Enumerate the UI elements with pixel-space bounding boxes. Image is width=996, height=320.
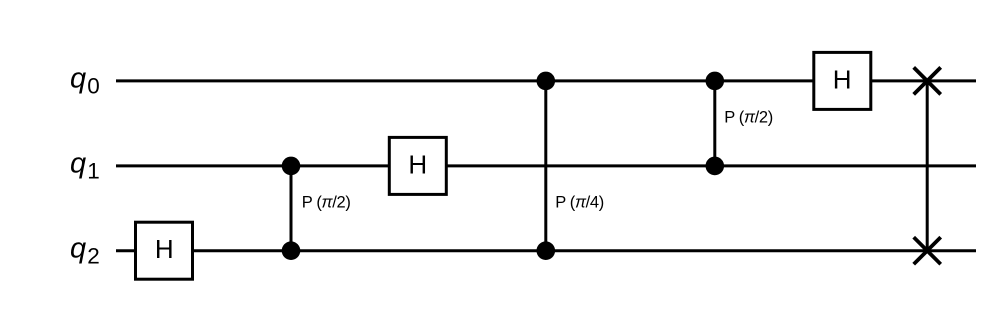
- svg-text:q: q: [70, 63, 86, 95]
- swap cross on q0: [914, 67, 941, 94]
- svg-text:0: 0: [87, 74, 100, 99]
- svg-text:H: H: [408, 149, 427, 179]
- svg-text:H: H: [155, 234, 174, 264]
- control dot CP1 on q2: [282, 241, 301, 260]
- wire q1: [116, 164, 976, 167]
- control dot CP2 on q0: [537, 72, 556, 91]
- svg-text:P (π/2): P (π/2): [302, 193, 351, 211]
- gate H on q1: [389, 137, 446, 194]
- control dot CP3 on q0: [706, 72, 725, 91]
- svg-text:q: q: [70, 148, 86, 180]
- svg-text:P (π/4): P (π/4): [555, 193, 604, 211]
- controlled-phase CP3 vertical wire (q0-q1): [713, 81, 716, 166]
- swap cross on q2: [914, 237, 941, 264]
- gate H on q0: [814, 52, 871, 109]
- wire q0: [116, 79, 976, 82]
- control dot CP2 on q2: [537, 241, 556, 260]
- control dot CP3 on q1: [706, 157, 725, 176]
- controlled-phase CP2 vertical wire (q0-q2): [544, 81, 547, 251]
- svg-text:H: H: [833, 64, 852, 94]
- qubit label q2: [70, 233, 100, 269]
- gate H on q2: [136, 222, 193, 279]
- svg-text:2: 2: [87, 244, 100, 269]
- qubit label q0: [70, 63, 100, 99]
- controlled-phase CP1 vertical wire (q1-q2): [290, 166, 293, 251]
- wire q2: [116, 249, 976, 252]
- svg-text:1: 1: [87, 159, 100, 184]
- swap vertical wire (q0-q2): [926, 81, 929, 251]
- svg-text:P (π/2): P (π/2): [724, 108, 773, 126]
- svg-text:q: q: [70, 233, 86, 265]
- control dot CP1 on q1: [282, 157, 301, 176]
- qubit label q1: [70, 148, 100, 184]
